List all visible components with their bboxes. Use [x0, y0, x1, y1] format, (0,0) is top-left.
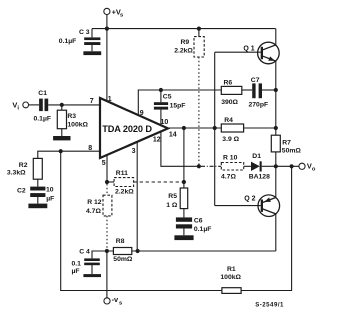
junction R8/pin3 — [136, 249, 140, 253]
transistor Q2 — [258, 166, 280, 251]
junction -Vs/C4/R12 — [105, 249, 109, 253]
svg-text:R 12: R 12 — [87, 199, 102, 206]
svg-text:C6: C6 — [194, 217, 203, 224]
svg-text:R6: R6 — [224, 79, 233, 86]
svg-text:10: 10 — [161, 119, 169, 126]
svg-text:0.1µF: 0.1µF — [194, 226, 212, 233]
capacitor C5 — [154, 90, 168, 126]
wire C1 to pin 7 — [48, 104, 100, 106]
ground (C3) — [83, 51, 101, 55]
svg-text:390Ω: 390Ω — [221, 99, 238, 106]
svg-text:0.1: 0.1 — [72, 260, 82, 267]
wire top supply rail — [92, 28, 276, 30]
svg-text:R9: R9 — [181, 39, 190, 46]
wire -Vs rail — [107, 250, 276, 252]
svg-text:R8: R8 — [116, 238, 125, 245]
svg-text:R 10: R 10 — [223, 155, 238, 162]
svg-text:5: 5 — [102, 160, 106, 167]
resistor R8 — [113, 248, 131, 255]
svg-text:4.7Ω: 4.7Ω — [86, 208, 101, 215]
svg-text:µF: µF — [72, 268, 80, 275]
svg-text:C7: C7 — [251, 77, 260, 84]
svg-text:270pF: 270pF — [249, 102, 269, 109]
wire Q2 base — [215, 205, 261, 207]
junction output to base drive — [213, 126, 217, 130]
ground (C2) — [28, 204, 47, 209]
capacitor C6 — [176, 209, 192, 236]
svg-text:12: 12 — [153, 136, 161, 143]
op-amp U1 TDA2020D — [100, 98, 168, 158]
svg-text:50mΩ: 50mΩ — [113, 256, 133, 263]
svg-text:3.9 Ω: 3.9 Ω — [222, 136, 239, 143]
capacitor C2 — [30, 179, 45, 203]
wire output row pin 14 — [168, 127, 276, 129]
svg-text:100kΩ: 100kΩ — [220, 274, 241, 281]
ground (C6) — [174, 235, 193, 240]
svg-text:Q 1: Q 1 — [243, 46, 254, 53]
svg-text:C1: C1 — [38, 90, 47, 97]
terminal Vo — [299, 163, 305, 169]
junction Vo/D1/R7 — [274, 164, 278, 168]
svg-text:1 Ω: 1 Ω — [166, 202, 178, 209]
wire +Vs lead and pin 1 — [106, 15, 108, 102]
svg-text:C2: C2 — [17, 187, 26, 194]
wire emitter to R7 — [275, 90, 277, 135]
junction C5 top — [159, 88, 163, 92]
terminal Vi input — [23, 102, 29, 108]
svg-text:2.2kΩ: 2.2kΩ — [174, 47, 193, 54]
diode D1 — [251, 161, 276, 171]
svg-text:C 3: C 3 — [79, 29, 90, 36]
wire pin 3 down — [136, 142, 138, 251]
wire output branch to R5 — [183, 128, 185, 188]
svg-text:Q 2: Q 2 — [244, 196, 255, 203]
svg-text:3: 3 — [132, 148, 136, 155]
svg-text:2.2kΩ: 2.2kΩ — [115, 188, 134, 195]
svg-text:s: s — [119, 300, 122, 306]
capacitor C1 — [39, 99, 48, 112]
resistor R4 — [221, 124, 243, 132]
svg-text:s: s — [120, 12, 123, 18]
wire Vi to C1 — [29, 104, 39, 106]
resistor R3 — [57, 105, 66, 136]
svg-text:R3: R3 — [67, 113, 76, 120]
svg-text:µF: µF — [46, 196, 54, 203]
svg-text:R5: R5 — [168, 193, 177, 200]
svg-text:7: 7 — [90, 98, 94, 105]
resistor R2 — [33, 158, 42, 179]
wire pin 9 up — [138, 90, 161, 115]
junction C1/R3 — [60, 103, 64, 107]
junction pin8/feedback — [59, 149, 63, 153]
svg-text:BA128: BA128 — [249, 173, 270, 180]
resistor R5 — [180, 188, 188, 209]
capacitor C4 — [84, 251, 107, 274]
svg-text:R1: R1 — [227, 266, 236, 273]
junction R11/R5 — [182, 180, 186, 184]
wire R9 dotted lead down — [198, 57, 200, 166]
transistor Q1 — [258, 29, 280, 90]
svg-text:0.1µF: 0.1µF — [59, 38, 77, 45]
svg-text:TDA 2020 D: TDA 2020 D — [102, 124, 152, 134]
wire R7 to Vo node — [275, 152, 277, 166]
resistor R12 (dashed) — [103, 184, 112, 249]
wire R11 dashed lead right — [134, 181, 184, 183]
svg-text:50mΩ: 50mΩ — [282, 148, 302, 155]
junction emitter/C7 — [274, 88, 278, 92]
svg-text:o: o — [312, 167, 316, 173]
svg-text:15pF: 15pF — [170, 102, 186, 109]
svg-text:i: i — [17, 106, 19, 112]
svg-text:C5: C5 — [163, 94, 172, 101]
svg-text:R11: R11 — [116, 170, 128, 177]
wire C7 to emitter line — [262, 89, 276, 91]
junction output to R5 branch — [182, 126, 186, 130]
wire pin 5 down — [106, 155, 108, 182]
svg-text:R7: R7 — [282, 140, 291, 147]
svg-text:S-2549/1: S-2549/1 — [255, 302, 284, 309]
resistor R7 — [271, 135, 280, 152]
svg-text:R4: R4 — [224, 117, 233, 124]
resistor R11 (dashed) — [107, 178, 134, 187]
wire R10 to D1 — [244, 165, 251, 167]
svg-text:C 4: C 4 — [79, 249, 90, 256]
resistor R1 — [222, 288, 241, 294]
terminal +Vs — [104, 8, 110, 14]
svg-text:3.3kΩ: 3.3kΩ — [7, 170, 26, 177]
wire pin 12 branch — [161, 132, 199, 167]
svg-text:-v: -v — [112, 295, 119, 304]
junction +Vs node — [105, 27, 109, 31]
wire Vo row — [276, 165, 299, 167]
wire C5 row to R6 — [161, 89, 221, 91]
wire feedback loop R1 — [61, 151, 292, 290]
svg-text:0.1µF: 0.1µF — [34, 115, 52, 122]
junction node A pin5/R11/R12 — [105, 180, 109, 184]
wire dash-dot to R10 — [201, 165, 221, 167]
resistor R10 (dashed) — [221, 163, 243, 171]
terminal -Vs — [104, 298, 110, 304]
resistor R9 (dashed) — [194, 29, 204, 57]
ground (C4) — [83, 274, 101, 277]
svg-text:10: 10 — [46, 187, 54, 194]
wire R6 to C7 — [242, 89, 252, 91]
svg-text:14: 14 — [169, 131, 177, 138]
svg-text:9: 9 — [140, 110, 144, 117]
capacitor C3 — [84, 29, 100, 52]
svg-text:4.7Ω: 4.7Ω — [221, 173, 236, 180]
resistor R6 — [221, 86, 242, 94]
ground (R3) — [53, 136, 70, 140]
svg-text:R2: R2 — [19, 162, 28, 169]
junction R9 top rail — [197, 27, 201, 31]
wire -Vs terminal lead — [106, 251, 108, 298]
junction feedback tap — [290, 164, 294, 168]
wire base drive vertical — [214, 52, 216, 205]
wire pin 8 row — [38, 151, 100, 158]
junction R4 right — [274, 126, 278, 130]
junction pin12/R9/R10 — [197, 164, 201, 168]
svg-text:100kΩ: 100kΩ — [67, 122, 88, 129]
wire Q1 base — [215, 51, 261, 53]
svg-text:D1: D1 — [252, 153, 261, 160]
capacitor C7 — [252, 83, 262, 98]
